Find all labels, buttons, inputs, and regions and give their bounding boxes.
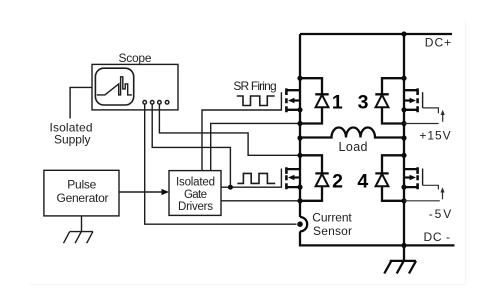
svg-text:Scope: Scope xyxy=(119,51,152,65)
svg-text:+15V: +15V xyxy=(419,129,450,143)
svg-text:-5V: -5V xyxy=(429,207,452,221)
svg-text:DC -: DC - xyxy=(424,230,451,244)
svg-text:3: 3 xyxy=(358,92,369,114)
svg-text:2: 2 xyxy=(332,171,343,193)
svg-text:Sensor: Sensor xyxy=(313,224,352,238)
svg-text:1: 1 xyxy=(332,92,343,114)
svg-text:Supply: Supply xyxy=(54,133,91,147)
svg-text:Generator: Generator xyxy=(57,191,109,205)
svg-text:Isolated: Isolated xyxy=(176,177,215,189)
svg-text:Load: Load xyxy=(339,140,368,154)
svg-text:4: 4 xyxy=(357,171,368,193)
svg-text:Current: Current xyxy=(312,211,352,225)
svg-text:DC+: DC+ xyxy=(425,35,451,49)
svg-text:Gate: Gate xyxy=(184,189,207,201)
svg-text:Drivers: Drivers xyxy=(178,201,213,213)
svg-text:Pulse: Pulse xyxy=(67,178,96,192)
svg-text:SR Firing: SR Firing xyxy=(233,79,276,93)
